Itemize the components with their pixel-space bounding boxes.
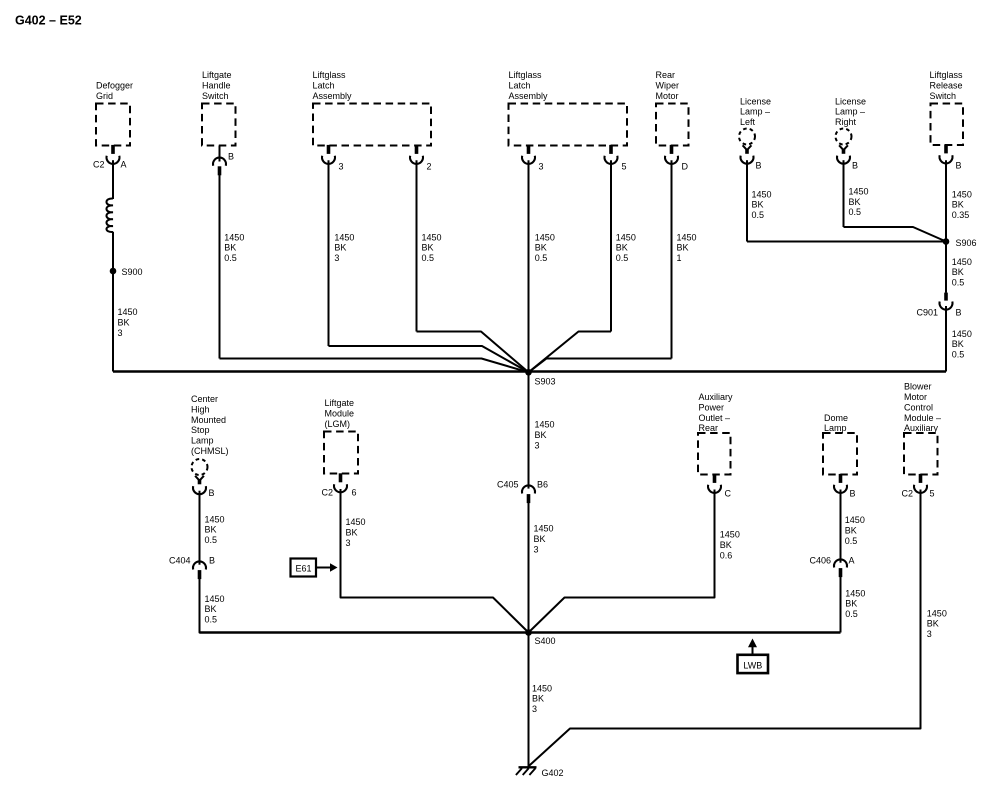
svg-text:1450: 1450 — [422, 232, 442, 242]
wire C901 down to main bus — [945, 306, 947, 372]
svg-text:5: 5 — [622, 162, 627, 172]
connector pin B of Liftgate Handle Switch — [213, 146, 226, 176]
wire S400 down to ground G402 — [528, 633, 530, 767]
svg-text:BK: BK — [422, 243, 434, 253]
svg-text:Switch: Switch — [930, 91, 957, 101]
wire defogger pin to coil — [112, 160, 114, 199]
ground symbol G402 — [516, 767, 537, 775]
svg-text:3: 3 — [535, 440, 540, 450]
connector C405 — [522, 485, 535, 503]
harness code LWB arrow — [748, 639, 757, 656]
svg-text:BK: BK — [224, 243, 236, 253]
wire license left horizontal to S906 — [747, 241, 946, 243]
connector pin 5 of Latch Assembly 2 — [605, 145, 618, 164]
svg-text:BK: BK — [118, 317, 130, 327]
svg-text:1450: 1450 — [535, 420, 555, 430]
svg-text:1450: 1450 — [334, 232, 354, 242]
ground distribution cell E61 box — [291, 559, 317, 577]
svg-text:LWB: LWB — [743, 660, 762, 670]
svg-text:S906: S906 — [956, 238, 977, 248]
svg-text:1450: 1450 — [205, 514, 225, 524]
svg-text:Latch: Latch — [313, 81, 335, 91]
connector pin 3 of Latch Assembly 2 — [522, 145, 535, 164]
svg-text:1450: 1450 — [534, 524, 554, 534]
svg-text:Center: Center — [191, 394, 218, 404]
svg-text:0.5: 0.5 — [535, 253, 548, 263]
connector pin A / C2 of Defogger Grid — [107, 145, 120, 164]
connector pin D of Rear Wiper Motor — [665, 145, 678, 164]
svg-text:Auxiliary: Auxiliary — [904, 423, 939, 433]
svg-text:Liftgate: Liftgate — [325, 398, 355, 408]
svg-text:B: B — [850, 489, 856, 499]
svg-text:B: B — [209, 488, 215, 498]
svg-text:Assembly: Assembly — [509, 91, 549, 101]
svg-text:1450: 1450 — [224, 232, 244, 242]
svg-text:2: 2 — [427, 162, 432, 172]
svg-text:BK: BK — [952, 339, 964, 349]
component Liftgate Module box — [324, 432, 358, 474]
svg-text:0.5: 0.5 — [224, 253, 237, 263]
svg-text:0.5: 0.5 — [752, 210, 765, 220]
main ground bus horizontal (S903 level) — [113, 370, 946, 372]
component Blower Motor Control Module box — [904, 433, 938, 475]
connector pin B of License Lamp Right — [837, 145, 850, 163]
svg-text:E61: E61 — [295, 564, 311, 574]
connector pin 5 / C2 of Blower Module — [914, 474, 927, 493]
svg-text:BK: BK — [720, 540, 732, 550]
svg-text:Release: Release — [930, 81, 963, 91]
wire latch1 pin3 down — [328, 160, 330, 346]
svg-text:1450: 1450 — [952, 329, 972, 339]
wire aux outlet down, left, diagonal to S400 — [529, 490, 715, 633]
component Liftgate Handle Switch box — [202, 104, 236, 146]
svg-text:Auxiliary: Auxiliary — [699, 392, 734, 402]
connector C406 — [834, 559, 847, 577]
svg-text:1450: 1450 — [952, 257, 972, 267]
svg-text:Lamp –: Lamp – — [835, 107, 865, 117]
svg-text:BK: BK — [952, 200, 964, 210]
svg-text:BK: BK — [535, 243, 547, 253]
svg-text:C2: C2 — [321, 488, 333, 498]
svg-text:3: 3 — [334, 253, 339, 263]
svg-text:1450: 1450 — [346, 517, 366, 527]
svg-text:D: D — [682, 162, 689, 172]
svg-text:B: B — [956, 308, 962, 318]
svg-text:BK: BK — [334, 243, 346, 253]
svg-text:Defogger: Defogger — [96, 81, 133, 91]
svg-text:1450: 1450 — [752, 189, 772, 199]
svg-text:3: 3 — [118, 328, 123, 338]
svg-text:BK: BK — [845, 525, 857, 535]
svg-text:0.5: 0.5 — [845, 609, 858, 619]
svg-text:1450: 1450 — [720, 530, 740, 540]
svg-text:0.6: 0.6 — [720, 551, 733, 561]
svg-text:Liftgate: Liftgate — [202, 70, 232, 80]
svg-text:1450: 1450 — [677, 232, 697, 242]
svg-text:S900: S900 — [122, 267, 143, 277]
wire C406 down to main lower bus — [840, 577, 842, 633]
component License Lamp Right bulb — [836, 129, 852, 145]
wire release switch down to S906 — [945, 160, 947, 293]
splice S400 — [525, 629, 532, 636]
component Liftglass Release Switch box — [931, 104, 964, 146]
svg-text:1450: 1450 — [845, 588, 865, 598]
svg-text:1450: 1450 — [205, 594, 225, 604]
svg-text:BK: BK — [927, 619, 939, 629]
wire CHMSL down to C404 — [199, 491, 201, 565]
svg-text:BK: BK — [752, 200, 764, 210]
arrow E61 to LGM wire — [316, 567, 331, 569]
svg-text:C901: C901 — [916, 308, 938, 318]
svg-text:0.5: 0.5 — [849, 207, 862, 217]
svg-text:BK: BK — [205, 525, 217, 535]
svg-text:C2: C2 — [93, 160, 105, 170]
wire rear wiper down — [671, 160, 673, 358]
svg-text:1450: 1450 — [845, 515, 865, 525]
svg-text:BK: BK — [849, 197, 861, 207]
splice S906 — [943, 238, 950, 245]
svg-text:S903: S903 — [535, 377, 556, 387]
svg-text:B: B — [209, 556, 215, 566]
svg-text:Module: Module — [325, 409, 355, 419]
harness code LWB box — [738, 655, 769, 673]
connector pin B of Dome Lamp — [834, 474, 847, 493]
svg-text:0.5: 0.5 — [422, 253, 435, 263]
component Defogger Grid box — [96, 104, 130, 146]
splice S900 — [110, 268, 117, 275]
svg-text:B: B — [228, 152, 234, 162]
component Dome Lamp box — [823, 433, 857, 475]
wire latch2 pin3 straight down to S903 — [528, 160, 530, 371]
connector C404 — [193, 561, 206, 579]
svg-text:1450: 1450 — [952, 189, 972, 199]
main lower bus horizontal (S400 level) — [200, 631, 841, 633]
svg-text:Stop: Stop — [191, 425, 210, 435]
svg-text:C406: C406 — [809, 556, 831, 566]
component CHMSL bulb — [192, 459, 208, 475]
svg-text:1450: 1450 — [535, 232, 555, 242]
svg-text:1: 1 — [677, 253, 682, 263]
svg-text:0.5: 0.5 — [952, 278, 965, 288]
svg-text:Grid: Grid — [96, 91, 113, 101]
wire license right down — [843, 160, 845, 227]
svg-text:6: 6 — [352, 488, 357, 498]
svg-text:BK: BK — [616, 243, 628, 253]
svg-text:BK: BK — [677, 243, 689, 253]
svg-text:0.35: 0.35 — [952, 210, 970, 220]
svg-text:G402: G402 — [542, 768, 564, 778]
svg-text:B6: B6 — [537, 480, 548, 490]
wire handle switch horizontal + diagonal to S903 — [220, 359, 529, 373]
svg-text:Lamp: Lamp — [824, 423, 847, 433]
svg-text:3: 3 — [532, 704, 537, 714]
wire coil to main bus via S900 — [112, 232, 114, 372]
wire license right horizontal + diagonal to S906 — [844, 227, 947, 242]
svg-text:C2: C2 — [901, 489, 913, 499]
svg-text:G402 – E52: G402 – E52 — [15, 14, 82, 28]
svg-text:Rear: Rear — [656, 70, 676, 80]
component Auxiliary Power Outlet box — [698, 433, 731, 475]
svg-text:C404: C404 — [169, 556, 191, 566]
wire blower down, left, diagonal to ground junction — [529, 490, 921, 767]
svg-text:0.5: 0.5 — [952, 350, 965, 360]
svg-text:0.5: 0.5 — [616, 253, 629, 263]
svg-text:A: A — [849, 556, 855, 566]
svg-text:Liftglass: Liftglass — [313, 70, 347, 80]
svg-text:0.5: 0.5 — [845, 536, 858, 546]
svg-text:B: B — [756, 161, 762, 171]
svg-text:Lamp: Lamp — [191, 436, 214, 446]
svg-text:BK: BK — [845, 599, 857, 609]
svg-text:Right: Right — [835, 117, 857, 127]
svg-text:Motor: Motor — [904, 392, 927, 402]
svg-text:S400: S400 — [535, 636, 556, 646]
connector pin B of Liftglass Release Switch — [940, 144, 953, 163]
wire latch2 pin5 horizontal + diagonal to S903 — [529, 332, 612, 373]
svg-text:License: License — [835, 96, 866, 106]
svg-text:0.5: 0.5 — [205, 535, 218, 545]
svg-text:5: 5 — [930, 489, 935, 499]
svg-text:Lamp –: Lamp – — [740, 107, 770, 117]
svg-text:High: High — [191, 404, 210, 414]
svg-text:BK: BK — [952, 267, 964, 277]
svg-text:BK: BK — [534, 534, 546, 544]
svg-text:C: C — [725, 489, 732, 499]
wire latch2 pin5 down — [610, 160, 612, 331]
component Liftglass Latch Assembly 2 box — [509, 104, 628, 146]
svg-text:Dome: Dome — [824, 413, 848, 423]
svg-text:(LGM): (LGM) — [325, 419, 351, 429]
svg-text:0.5: 0.5 — [205, 615, 218, 625]
svg-text:Wiper: Wiper — [656, 81, 680, 91]
svg-text:1450: 1450 — [118, 307, 138, 317]
connector pin B of CHMSL — [193, 476, 206, 494]
svg-text:B: B — [956, 161, 962, 171]
wire latch1 pin2 horizontal + diagonal to S903 — [417, 332, 529, 373]
svg-text:Mounted: Mounted — [191, 415, 226, 425]
svg-text:Liftglass: Liftglass — [930, 70, 964, 80]
svg-text:BK: BK — [535, 430, 547, 440]
wire license left down — [746, 160, 748, 241]
svg-text:License: License — [740, 96, 771, 106]
svg-text:1450: 1450 — [616, 232, 636, 242]
svg-text:BK: BK — [532, 694, 544, 704]
svg-text:(CHMSL): (CHMSL) — [191, 446, 229, 456]
svg-text:3: 3 — [534, 544, 539, 554]
svg-text:B: B — [852, 161, 858, 171]
svg-text:3: 3 — [346, 538, 351, 548]
defogger grid resistive element coil — [106, 198, 113, 232]
svg-text:Power: Power — [699, 402, 725, 412]
svg-text:Module –: Module – — [904, 413, 941, 423]
wire C405 down to S400 — [528, 503, 530, 633]
svg-text:1450: 1450 — [849, 186, 869, 196]
wire dome lamp down to C406 — [840, 490, 842, 563]
wire S903 down to C405 — [528, 372, 530, 489]
svg-text:Switch: Switch — [202, 91, 229, 101]
connector C901 — [940, 293, 953, 310]
wire C404 down and right to S400 — [200, 579, 529, 633]
connector pin 6 / C2 of LGM — [334, 473, 347, 492]
connector pin 3 of Latch Assembly 1 — [322, 145, 335, 164]
svg-text:BK: BK — [346, 528, 358, 538]
wire latch1 pin3 horizontal + diagonal to S903 — [329, 346, 529, 372]
component License Lamp Left bulb — [739, 129, 755, 145]
splice S903 — [525, 369, 532, 376]
svg-text:Latch: Latch — [509, 81, 531, 91]
connector pin C of Aux Power Outlet — [708, 474, 721, 493]
svg-text:C405: C405 — [497, 480, 519, 490]
wire latch1 pin2 down — [416, 160, 418, 331]
component Rear Wiper Motor box — [656, 104, 689, 146]
svg-text:1450: 1450 — [927, 608, 947, 618]
svg-text:3: 3 — [339, 162, 344, 172]
svg-text:A: A — [121, 160, 127, 170]
svg-text:Outlet –: Outlet – — [699, 413, 731, 423]
wire LGM down, right, diagonal to S400 — [341, 489, 529, 633]
svg-text:Liftglass: Liftglass — [509, 70, 543, 80]
svg-text:3: 3 — [927, 629, 932, 639]
svg-text:Handle: Handle — [202, 81, 231, 91]
wire handle switch down — [219, 175, 221, 359]
svg-text:Control: Control — [904, 402, 933, 412]
svg-text:1450: 1450 — [532, 683, 552, 693]
svg-text:Rear: Rear — [699, 423, 719, 433]
svg-text:BK: BK — [205, 604, 217, 614]
svg-text:3: 3 — [539, 162, 544, 172]
connector pin B of License Lamp Left — [741, 145, 754, 163]
svg-text:Left: Left — [740, 117, 756, 127]
svg-text:Assembly: Assembly — [313, 91, 353, 101]
svg-text:Blower: Blower — [904, 382, 932, 392]
svg-text:Motor: Motor — [656, 91, 679, 101]
connector pin 2 of Latch Assembly 1 — [410, 145, 423, 164]
wire rear wiper horizontal + diagonal to S903 — [529, 359, 672, 373]
component Liftglass Latch Assembly 1 box — [313, 104, 431, 146]
